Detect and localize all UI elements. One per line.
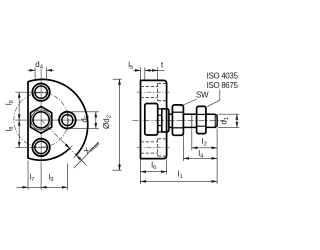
centerline top hole (15, 91, 50, 93)
dimension l4 (183, 136, 217, 161)
top hole counterbore (32, 84, 49, 101)
thread run-out line (191, 114, 193, 127)
dimension d4 (28, 68, 54, 80)
centerline bottom hole (15, 146, 50, 148)
dimension l8 vertical (x2) (18, 92, 20, 147)
center thread major (thin) (31, 110, 51, 130)
dimension l6 (disc thickness) (141, 159, 167, 184)
dimension d1 (stud diameter) (218, 114, 240, 127)
bottom hole center dash-dot (137, 146, 169, 148)
bottom hole counterbore (32, 139, 49, 156)
neck (stud between collar and nut) (169, 113, 173, 115)
svg-text:ISO 8675: ISO 8675 (207, 81, 239, 90)
svg-text:SW: SW (196, 91, 209, 100)
centerline horizontal through center and right hole (15, 119, 84, 121)
flange outline: small lower arc (28, 148, 70, 160)
dimension d5 (right hole) (68, 112, 100, 129)
dimension X max (eccentric step at 45deg) (65, 142, 99, 168)
thin nut ISO 8675 (197, 106, 206, 133)
dimension l1 (total length) (141, 180, 218, 182)
threaded stud end (206, 114, 217, 127)
SW leader (180, 99, 197, 107)
hex nut ISO 4035 (172, 105, 183, 135)
top hole bore (35, 86, 47, 98)
top hole center dash-dot (137, 91, 169, 93)
bottom dimensions l7 / l9 (17, 161, 68, 190)
bottom hole bore (35, 141, 47, 153)
45 deg dash-dot ray (41, 120, 83, 162)
dimension l2 (thread length) (192, 129, 217, 185)
centerline vertical through holes (40, 69, 42, 162)
top hole hidden lines (141, 83, 167, 100)
bottom hole hidden lines (141, 139, 167, 156)
dimension l5 / t (top) (134, 67, 165, 80)
axis dash-dot (133, 119, 225, 121)
thread hole wall upper (158, 109, 162, 115)
collar in recess (162, 109, 169, 132)
dimension Od2 (flange diameter) (113, 79, 122, 170)
shaft between nuts (183, 113, 196, 115)
thread hole wall lower (158, 126, 162, 132)
center hex socket (31, 107, 52, 134)
svg-text:ISO 4035: ISO 4035 (207, 72, 239, 81)
centerline right hole vertical (66, 111, 68, 131)
flange disc side view (141, 80, 167, 158)
bolt circle (dash-dot) (14, 93, 68, 147)
ISO leader (207, 90, 220, 107)
right hole bore (62, 115, 73, 126)
flange outline: flat left edge + large eccentric arc (28, 79, 88, 158)
center thread bore (33, 112, 49, 128)
hex socket side view (145, 104, 158, 136)
right hole counterbore (59, 112, 76, 129)
